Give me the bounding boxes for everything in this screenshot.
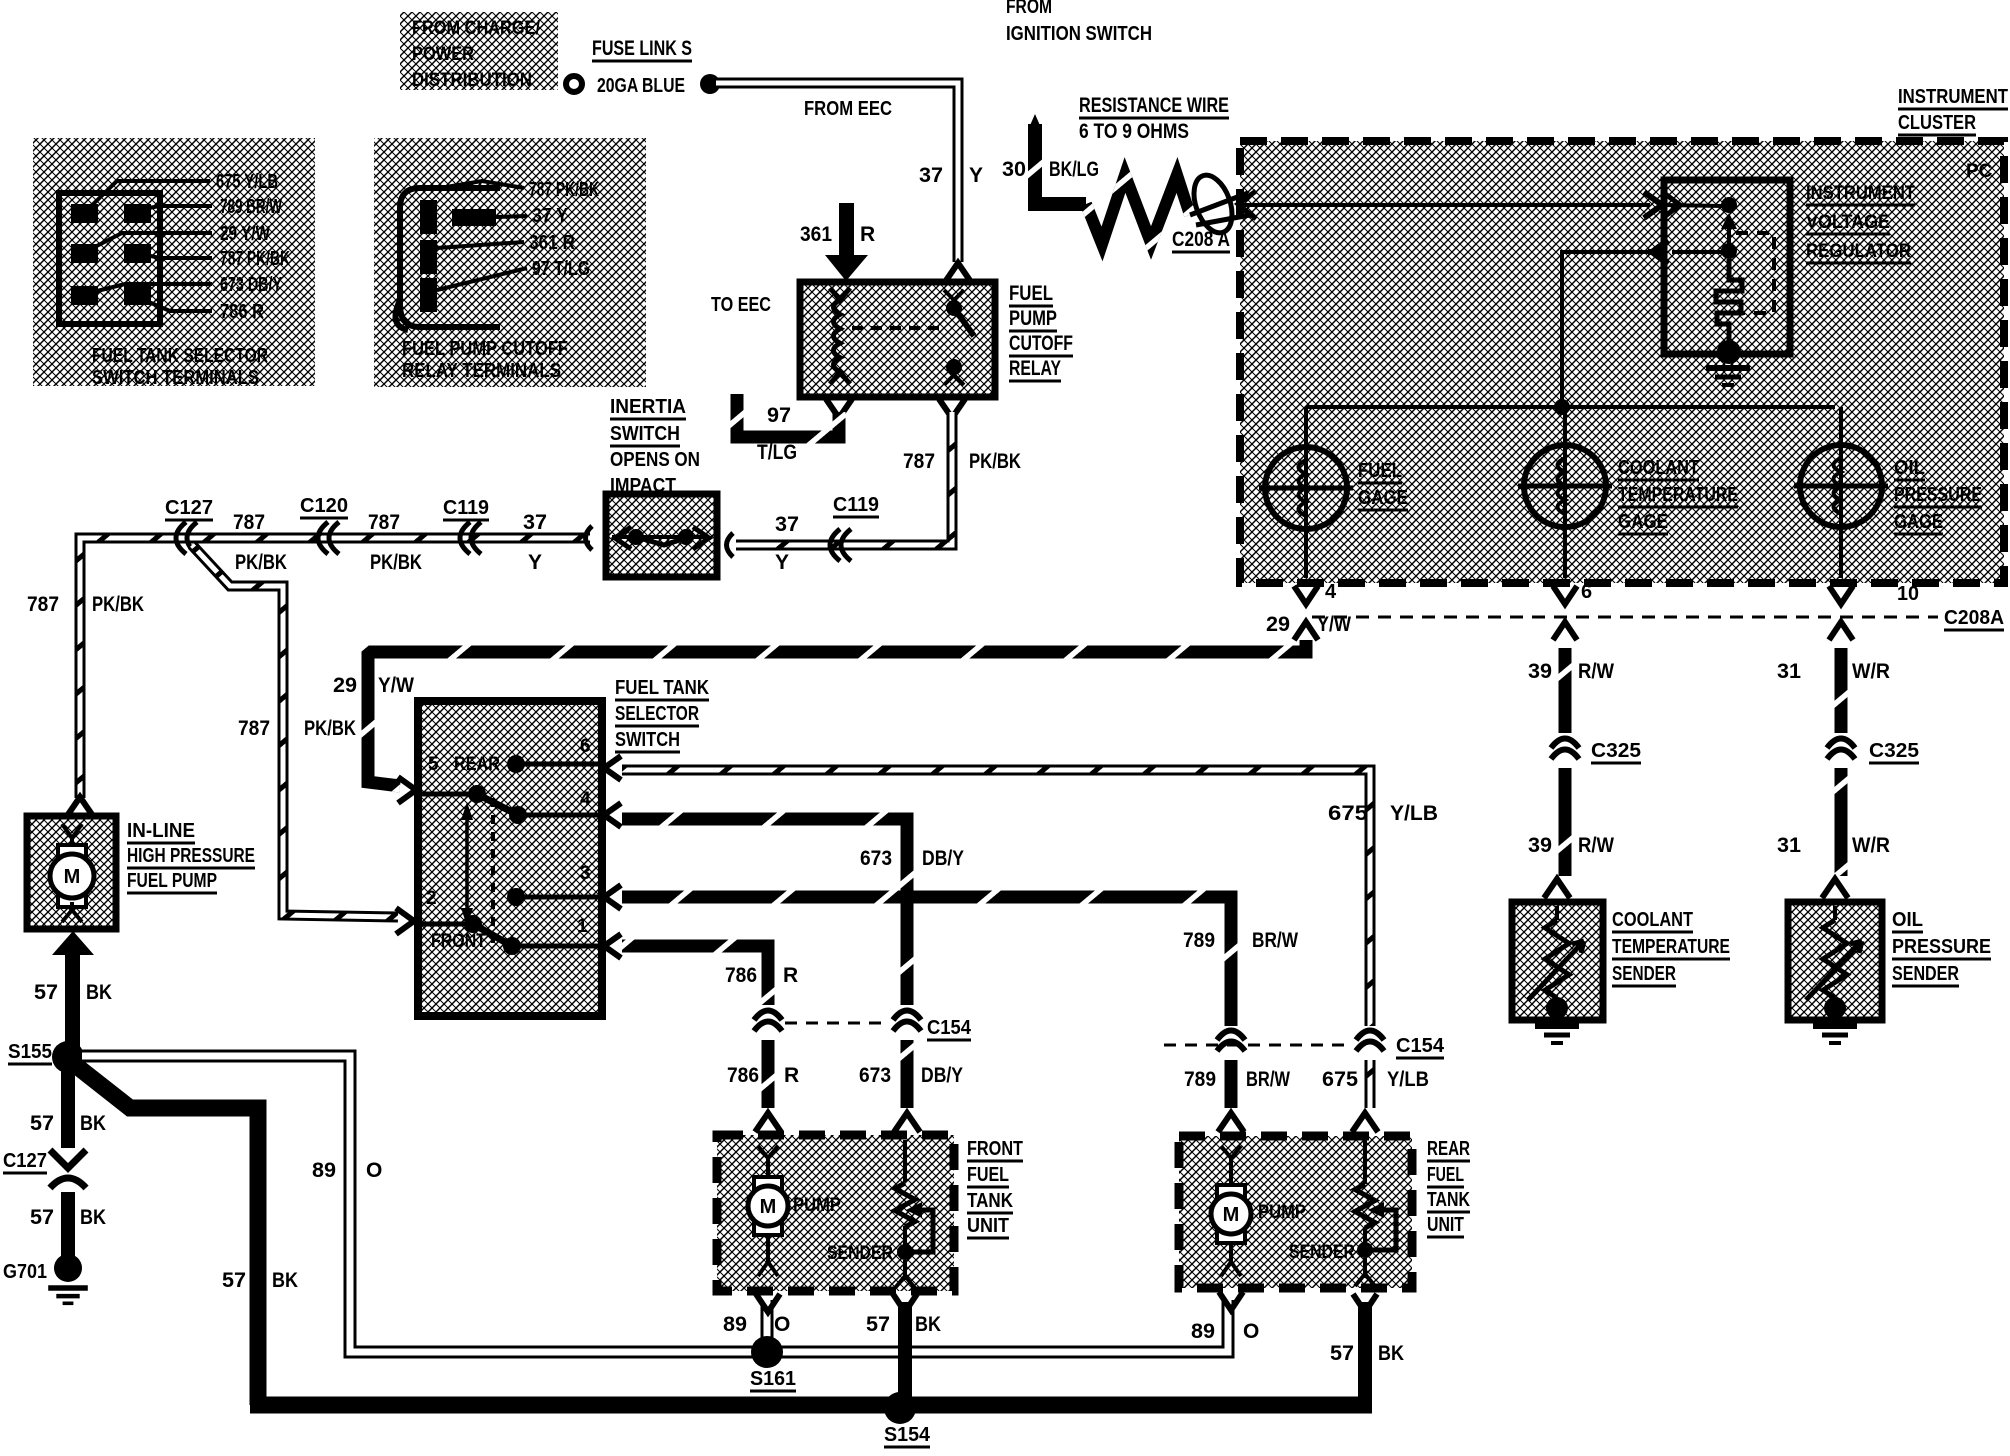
svg-text:W/R: W/R	[1852, 834, 1890, 857]
svg-text:T/LG: T/LG	[757, 441, 797, 464]
fuel gage	[1259, 407, 1408, 604]
svg-text:57: 57	[222, 1269, 246, 1292]
fuel pump cutoff relay terminals panel	[374, 138, 646, 387]
wire 39 R/W	[1528, 648, 1641, 898]
svg-text:57: 57	[30, 1112, 54, 1135]
svg-text:DISTRIBUTION: DISTRIBUTION	[412, 70, 532, 91]
svg-text:FUEL: FUEL	[967, 1164, 1009, 1186]
wire 57 BK S155 to C127	[30, 1070, 106, 1148]
connector C325 (coolant)	[1551, 739, 1579, 749]
svg-text:BK: BK	[86, 981, 112, 1004]
splice S154	[884, 1392, 931, 1447]
svg-text:787: 787	[27, 593, 59, 616]
wire 37 Y from fuse link	[716, 83, 983, 282]
svg-text:SENDER: SENDER	[1612, 963, 1676, 985]
svg-text:FROM EEC: FROM EEC	[804, 98, 892, 120]
wire from C208A to voltage regulator	[1243, 192, 1662, 218]
connector C208 A coil	[1187, 170, 1239, 238]
wire 675 Y/LB	[622, 770, 1438, 1026]
svg-text:CUTOFF: CUTOFF	[1009, 332, 1073, 355]
ground (coolant sender)	[1535, 1023, 1579, 1029]
svg-text:DB/Y: DB/Y	[921, 1064, 963, 1087]
svg-text:PK/BK: PK/BK	[235, 551, 287, 574]
svg-text:787: 787	[238, 717, 270, 740]
svg-text:C127: C127	[165, 497, 213, 519]
svg-text:Y/W: Y/W	[378, 674, 414, 697]
svg-text:INERTIA: INERTIA	[610, 396, 686, 418]
wire 361 R arrow	[800, 203, 875, 281]
svg-text:675: 675	[1322, 1068, 1358, 1091]
svg-text:4: 4	[580, 789, 591, 810]
rear fuel tank unit	[1179, 1136, 1470, 1312]
svg-text:BK: BK	[80, 1112, 106, 1135]
splice S155	[8, 1041, 84, 1073]
svg-text:IMPACT: IMPACT	[610, 475, 676, 497]
svg-text:G701: G701	[3, 1261, 47, 1283]
svg-text:787 PK/BK: 787 PK/BK	[220, 248, 290, 270]
svg-text:PK/BK: PK/BK	[969, 450, 1021, 473]
svg-text:IN-LINE: IN-LINE	[127, 820, 195, 842]
svg-text:FUEL: FUEL	[1427, 1164, 1464, 1186]
svg-text:FUSE LINK S: FUSE LINK S	[592, 37, 692, 60]
svg-text:786: 786	[725, 964, 757, 987]
svg-text:UNIT: UNIT	[1427, 1214, 1464, 1236]
connector C325 (oil)	[1827, 739, 1855, 749]
connector C120	[318, 522, 328, 554]
svg-text:FUEL PUMP: FUEL PUMP	[127, 870, 217, 892]
svg-text:786 R: 786 R	[220, 301, 264, 323]
svg-text:37 Y: 37 Y	[532, 205, 569, 227]
svg-text:R/W: R/W	[1578, 834, 1614, 857]
svg-text:TO EEC: TO EEC	[711, 294, 771, 316]
svg-text:673: 673	[860, 847, 892, 870]
front pump motor M	[754, 1177, 782, 1189]
svg-text:PK/BK: PK/BK	[92, 593, 144, 616]
svg-text:REAR: REAR	[454, 754, 500, 775]
svg-text:REGULATOR: REGULATOR	[1806, 241, 1911, 262]
svg-text:57: 57	[1330, 1342, 1354, 1365]
svg-text:Y/LB: Y/LB	[1390, 802, 1438, 825]
svg-text:PRESSURE: PRESSURE	[1894, 484, 1982, 506]
svg-text:C325: C325	[1869, 740, 1919, 762]
svg-text:Y: Y	[775, 551, 789, 574]
svg-text:INSTRUMENT: INSTRUMENT	[1898, 86, 2008, 108]
svg-text:FROM CHARGE/: FROM CHARGE/	[412, 18, 541, 39]
svg-text:PUMP: PUMP	[793, 1195, 841, 1216]
svg-text:FUEL PUMP CUTOFF: FUEL PUMP CUTOFF	[402, 338, 568, 360]
svg-text:789: 789	[1184, 1068, 1216, 1091]
svg-text:97 T/LG: 97 T/LG	[532, 258, 590, 280]
svg-text:COOLANT: COOLANT	[1618, 457, 1699, 479]
svg-text:C325: C325	[1591, 740, 1641, 762]
svg-text:C120: C120	[300, 495, 348, 517]
svg-text:R: R	[783, 964, 798, 987]
svg-text:S161: S161	[750, 1368, 796, 1390]
wire 57 BK S155 to ground bus	[74, 1064, 298, 1405]
svg-text:Y: Y	[528, 551, 542, 574]
svg-text:TANK: TANK	[1427, 1189, 1470, 1211]
in-line high pressure fuel pump	[27, 816, 255, 929]
wire 786 R	[622, 946, 799, 1132]
svg-text:97: 97	[767, 404, 791, 427]
svg-text:GAGE: GAGE	[1618, 511, 1668, 533]
svg-text:DB/Y: DB/Y	[922, 847, 964, 870]
svg-text:675: 675	[1328, 802, 1368, 825]
wire 673 DB/Y lower	[859, 1040, 963, 1132]
svg-text:BK: BK	[915, 1313, 941, 1336]
from charge power distribution note	[400, 12, 558, 91]
wire 57 BK C127 to G701	[30, 1192, 106, 1256]
svg-text:Y/LB: Y/LB	[1387, 1068, 1429, 1091]
regulator feed line to gauges	[1306, 252, 1835, 415]
svg-text:57: 57	[866, 1313, 890, 1336]
svg-text:S155: S155	[8, 1041, 52, 1063]
svg-text:PUMP: PUMP	[1258, 1202, 1306, 1223]
wire 57 BK pump to S155	[34, 931, 112, 1048]
svg-text:37: 37	[523, 511, 547, 534]
svg-text:89: 89	[312, 1159, 336, 1182]
inertia switch	[606, 396, 717, 577]
svg-text:M: M	[760, 1196, 777, 1218]
svg-text:6: 6	[580, 736, 591, 757]
svg-text:FROM: FROM	[1006, 0, 1052, 18]
connector C208A plane	[1294, 607, 2004, 640]
svg-text:BK: BK	[272, 1269, 298, 1292]
svg-text:789 BR/W: 789 BR/W	[220, 196, 282, 218]
svg-text:OIL: OIL	[1892, 909, 1923, 931]
svg-text:Y/W: Y/W	[1317, 613, 1351, 636]
svg-text:PK/BK: PK/BK	[370, 551, 422, 574]
coolant temperature gage	[1518, 407, 1738, 604]
fuel tank selector switch	[418, 677, 709, 1016]
wire 89 O front pump drop	[761, 1300, 774, 1352]
connector C154 (rear)	[1164, 1031, 1445, 1059]
svg-text:361 R: 361 R	[529, 232, 575, 254]
node: gauge feed junction	[1554, 399, 1570, 415]
front fuel tank unit	[717, 1135, 1023, 1312]
fuse link S	[566, 37, 720, 97]
svg-text:31: 31	[1777, 660, 1801, 683]
instrument voltage regulator U1	[1648, 180, 1915, 385]
svg-text:787: 787	[903, 450, 935, 473]
svg-text:C119: C119	[443, 497, 489, 519]
svg-text:57: 57	[30, 1206, 54, 1229]
wire 789 BR/W	[622, 897, 1298, 1132]
svg-text:C154: C154	[927, 1017, 972, 1039]
connector C119 (left)	[460, 522, 470, 554]
svg-text:TEMPERATURE: TEMPERATURE	[1612, 936, 1730, 958]
wire 787 PK/BK to in-line pump	[27, 593, 144, 816]
svg-text:GAGE: GAGE	[1358, 487, 1408, 509]
svg-text:SENDER: SENDER	[1289, 1242, 1355, 1263]
svg-text:M: M	[64, 866, 81, 888]
coolant temperature sender	[1512, 902, 1730, 1043]
svg-text:O: O	[774, 1313, 790, 1336]
svg-text:CLUSTER: CLUSTER	[1898, 112, 1976, 134]
svg-text:O: O	[1243, 1320, 1259, 1343]
wire 31 W/R	[1777, 648, 1919, 898]
svg-text:IGNITION SWITCH: IGNITION SWITCH	[1006, 23, 1152, 45]
svg-text:361: 361	[800, 223, 832, 246]
svg-text:2: 2	[426, 888, 437, 909]
svg-text:10: 10	[1897, 583, 1919, 605]
svg-text:787 PK/BK: 787 PK/BK	[529, 179, 599, 201]
svg-text:OPENS ON: OPENS ON	[610, 449, 700, 471]
connector C127	[176, 522, 186, 554]
svg-text:39: 39	[1528, 834, 1552, 857]
svg-text:FUEL TANK SELECTOR: FUEL TANK SELECTOR	[92, 345, 268, 367]
svg-text:R: R	[860, 223, 875, 246]
ground G701	[3, 1254, 88, 1303]
svg-text:C119: C119	[833, 494, 879, 516]
svg-text:37: 37	[775, 513, 799, 536]
svg-text:UNIT: UNIT	[967, 1215, 1009, 1237]
svg-text:W/R: W/R	[1852, 660, 1890, 683]
svg-text:31: 31	[1777, 834, 1801, 857]
svg-text:FUEL: FUEL	[1009, 282, 1053, 305]
svg-text:29: 29	[333, 674, 357, 697]
svg-text:SENDER: SENDER	[1892, 963, 1959, 985]
svg-text:PK/BK: PK/BK	[304, 717, 356, 740]
svg-text:786: 786	[727, 1064, 759, 1087]
svg-text:HIGH PRESSURE: HIGH PRESSURE	[127, 845, 255, 867]
svg-text:675 Y/LB: 675 Y/LB	[216, 171, 278, 193]
wire 57 BK rear sender drop	[1330, 1302, 1404, 1405]
wire 29 Y/W	[333, 613, 1351, 803]
svg-text:R/W: R/W	[1578, 660, 1614, 683]
svg-text:37: 37	[919, 164, 943, 187]
svg-text:POWER: POWER	[412, 44, 474, 65]
svg-text:S154: S154	[884, 1424, 931, 1446]
svg-text:PRESSURE: PRESSURE	[1892, 936, 1991, 958]
svg-text:SWITCH: SWITCH	[615, 729, 680, 751]
svg-text:1: 1	[577, 916, 588, 937]
wire 787 PK/BK branch to selector switch	[192, 545, 414, 934]
from ignition switch note	[1006, 0, 1152, 45]
svg-text:C154: C154	[1396, 1035, 1445, 1057]
svg-text:4: 4	[1325, 581, 1337, 603]
front sender	[903, 1140, 907, 1182]
resistance wire 6 to 9 ohms	[1002, 94, 1256, 252]
svg-text:6 TO 9 OHMS: 6 TO 9 OHMS	[1079, 120, 1189, 143]
fuel tank selector switch terminals panel	[33, 138, 315, 389]
svg-text:89: 89	[723, 1313, 747, 1336]
oil pressure gage	[1794, 407, 1982, 605]
wire 89 O	[82, 1056, 1259, 1352]
svg-text:FRONT: FRONT	[967, 1138, 1023, 1160]
fuel pump cutoff relay K1	[711, 282, 1073, 397]
svg-text:REAR: REAR	[1427, 1138, 1470, 1160]
ground (oil sender)	[1813, 1023, 1857, 1029]
svg-text:673 DB/Y: 673 DB/Y	[220, 274, 282, 296]
svg-text:89: 89	[1191, 1320, 1215, 1343]
svg-text:TANK: TANK	[967, 1190, 1013, 1212]
wire 787/37 main run	[80, 495, 592, 798]
wire 57 BK ground bus	[250, 1397, 1372, 1414]
splice S161	[750, 1336, 796, 1391]
svg-text:29: 29	[1266, 613, 1290, 636]
rear pump motor M	[1217, 1185, 1245, 1197]
wire 57 BK front sender drop	[866, 1302, 941, 1405]
svg-text:VOLTAGE: VOLTAGE	[1806, 212, 1890, 233]
instrument cluster box	[1240, 86, 2008, 583]
svg-text:SENDER: SENDER	[827, 1243, 893, 1264]
svg-text:OIL: OIL	[1894, 457, 1925, 479]
svg-text:BK: BK	[1378, 1342, 1404, 1365]
connector C119 (right)	[830, 529, 840, 561]
svg-text:GAGE: GAGE	[1894, 511, 1943, 533]
svg-text:C208 A: C208 A	[1172, 228, 1230, 251]
svg-text:3: 3	[580, 863, 591, 884]
svg-text:30: 30	[1002, 158, 1026, 181]
svg-text:R: R	[784, 1064, 799, 1087]
svg-text:PC: PC	[1966, 161, 1993, 182]
connector C127 (lower)	[3, 1150, 86, 1188]
svg-text:673: 673	[859, 1064, 891, 1087]
svg-text:FUEL TANK: FUEL TANK	[615, 677, 709, 699]
svg-text:O: O	[366, 1159, 382, 1182]
svg-text:FRONT: FRONT	[431, 931, 486, 952]
svg-text:29 Y/W: 29 Y/W	[220, 223, 270, 245]
oil pressure sender	[1788, 902, 1991, 1043]
svg-text:BK/LG: BK/LG	[1049, 158, 1099, 181]
svg-text:FUEL: FUEL	[1358, 460, 1402, 482]
svg-text:INSTRUMENT: INSTRUMENT	[1806, 183, 1915, 204]
svg-text:57: 57	[34, 981, 58, 1004]
wire 787 PK/BK (relay to C119)	[727, 399, 1022, 574]
connector C154 (front)	[754, 1011, 972, 1041]
svg-text:RELAY: RELAY	[1009, 357, 1061, 380]
svg-text:SWITCH TERMINALS: SWITCH TERMINALS	[92, 367, 259, 389]
svg-text:789: 789	[1183, 929, 1215, 952]
svg-text:Y: Y	[969, 164, 983, 187]
svg-text:6: 6	[1581, 581, 1592, 603]
svg-text:C127: C127	[3, 1150, 47, 1172]
svg-text:TEMPERATURE: TEMPERATURE	[1618, 484, 1738, 506]
svg-text:SWITCH: SWITCH	[610, 423, 680, 445]
svg-text:RESISTANCE WIRE: RESISTANCE WIRE	[1079, 94, 1229, 117]
svg-text:BK: BK	[80, 1206, 106, 1229]
svg-text:BR/W: BR/W	[1246, 1068, 1290, 1091]
ground (voltage regulator)	[1706, 365, 1750, 371]
wire 675 Y/LB lower	[1322, 1060, 1429, 1132]
wire 97 T/LG	[737, 394, 852, 464]
svg-text:20GA BLUE: 20GA BLUE	[597, 75, 685, 97]
svg-text:COOLANT: COOLANT	[1612, 909, 1693, 931]
svg-text:C208A: C208A	[1944, 607, 2004, 629]
svg-text:M: M	[1223, 1204, 1240, 1226]
svg-text:RELAY TERMINALS: RELAY TERMINALS	[402, 360, 561, 382]
svg-text:SELECTOR: SELECTOR	[615, 703, 699, 725]
svg-text:39: 39	[1528, 660, 1552, 683]
svg-text:BR/W: BR/W	[1252, 929, 1298, 952]
rear sender	[1363, 1140, 1367, 1184]
wire 673 DB/Y	[622, 819, 964, 1005]
svg-text:787: 787	[233, 511, 265, 534]
svg-text:787: 787	[368, 511, 400, 534]
svg-text:PUMP: PUMP	[1009, 307, 1057, 330]
svg-text:5: 5	[428, 754, 439, 775]
